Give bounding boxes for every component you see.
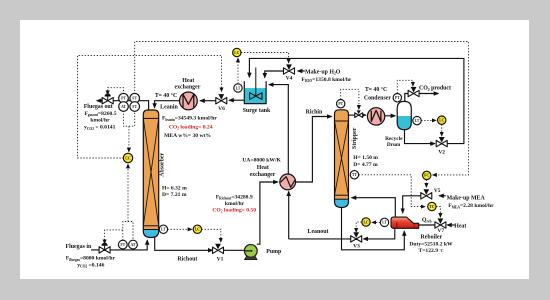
svg-text:Duty=52518.2 kW: Duty=52518.2 kW bbox=[409, 242, 453, 248]
wire V7 to reboiler nozzle bbox=[419, 224, 435, 226]
valve V4 bbox=[284, 64, 295, 74]
controller CC bbox=[123, 153, 132, 162]
svg-text:Stripper: Stripper bbox=[352, 127, 358, 149]
svg-text:V5: V5 bbox=[434, 188, 441, 194]
wire pump discharge to HX2 bbox=[257, 182, 278, 244]
svg-text:LC: LC bbox=[364, 220, 369, 224]
signal stripper PT to overhead valve bbox=[341, 89, 359, 109]
svg-text:Richout: Richout bbox=[177, 257, 197, 263]
svg-text:Condenser: Condenser bbox=[364, 96, 392, 102]
svg-text:H= 6.32 m: H= 6.32 m bbox=[162, 185, 187, 191]
svg-text:CO2 loading= 0.50: CO2 loading= 0.50 bbox=[212, 207, 256, 213]
valve V7 bbox=[435, 218, 446, 228]
controller TC bbox=[428, 202, 436, 210]
signal absorber LT to LC to V1 bbox=[168, 228, 192, 230]
instrument FT fluegas in bbox=[118, 240, 127, 249]
condenser bbox=[367, 108, 384, 125]
svg-text:LC: LC bbox=[439, 118, 444, 122]
instrument LT surge tank bbox=[234, 84, 242, 92]
wire surge tank outlet to V6 bbox=[229, 99, 244, 101]
svg-text:V4: V4 bbox=[286, 76, 293, 82]
recycle drum bbox=[397, 101, 411, 129]
wire CO2 product arrow bbox=[419, 93, 439, 95]
instrument LT absorber bbox=[159, 225, 167, 233]
controller FC bbox=[423, 171, 431, 179]
svg-text:CC: CC bbox=[125, 156, 131, 160]
signal CC to valve V6 bbox=[78, 55, 222, 158]
wire drum bottom to V2 bbox=[405, 129, 435, 143]
svg-text:TC: TC bbox=[429, 205, 434, 209]
instrument FT fluegas out bbox=[130, 93, 140, 103]
svg-text:CO2 product: CO2 product bbox=[419, 86, 451, 92]
wire richout from absorber bottom to V1 bbox=[155, 237, 213, 250]
signal drum LT to LC bbox=[421, 119, 436, 121]
svg-text:FT: FT bbox=[132, 105, 137, 109]
svg-text:V7: V7 bbox=[437, 228, 444, 234]
svg-text:Make-up H2O: Make-up H2O bbox=[305, 70, 341, 76]
svg-text:Fluegas out: Fluegas out bbox=[84, 104, 113, 110]
svg-text:MEA w%= 30 wt%: MEA w%= 30 wt% bbox=[164, 133, 211, 139]
svg-text:TT: TT bbox=[352, 173, 357, 177]
signal surge LT to LC bbox=[237, 58, 239, 84]
signal PT to fluegas-out valve bbox=[108, 88, 124, 95]
svg-text:Fluegas in: Fluegas in bbox=[66, 244, 92, 250]
svg-text:D= 7.21 m: D= 7.21 m bbox=[162, 192, 187, 198]
wire condenser to recycle drum bbox=[385, 115, 396, 117]
valve stripper overhead control bbox=[355, 110, 363, 117]
controller LC surge tank bbox=[233, 48, 241, 56]
signal AT/FT junction to CC bbox=[124, 111, 135, 127]
signal reboiler LT to LC bbox=[372, 221, 380, 223]
svg-text:exchanger: exchanger bbox=[174, 85, 200, 91]
svg-text:D= 4.77 m: D= 4.77 m bbox=[353, 162, 378, 168]
signal surge LC to V4 bbox=[241, 53, 289, 63]
svg-text:LC: LC bbox=[195, 228, 200, 232]
reboiler bbox=[391, 217, 419, 228]
svg-text:LC: LC bbox=[234, 51, 239, 55]
svg-text:V3: V3 bbox=[353, 244, 360, 250]
signal TT to TC bbox=[359, 175, 425, 207]
wire V6 to heat exchanger HX1 bbox=[200, 100, 216, 102]
svg-text:kmol/hr: kmol/hr bbox=[225, 201, 245, 207]
valve V6 bbox=[216, 94, 227, 104]
svg-text:FT: FT bbox=[121, 243, 126, 247]
valve V5 bbox=[421, 189, 432, 199]
svg-text:PT: PT bbox=[395, 96, 400, 100]
svg-text:AT: AT bbox=[131, 243, 136, 247]
svg-text:kmol/hr: kmol/hr bbox=[90, 117, 110, 123]
svg-text:UA=8000 kW/K: UA=8000 kW/K bbox=[242, 158, 281, 164]
svg-text:Leanout: Leanout bbox=[308, 229, 329, 235]
signal fluegas-in FT/AT loop bbox=[123, 222, 133, 241]
instrument PT fluegas out bbox=[119, 93, 129, 103]
surge tank bbox=[244, 68, 266, 104]
wire leanout from reboiler to V3 bbox=[364, 228, 395, 239]
instrument TT stripper bbox=[350, 171, 358, 179]
wire drum top to CO2 product valve bbox=[405, 94, 409, 102]
svg-text:Richin: Richin bbox=[306, 109, 323, 115]
wire leanin into absorber top bbox=[155, 101, 181, 108]
instrument LT reboiler bbox=[380, 218, 388, 226]
valve V2 bbox=[436, 137, 447, 147]
svg-text:LT: LT bbox=[415, 119, 420, 123]
svg-text:Heat: Heat bbox=[182, 78, 194, 84]
svg-text:Make-up MEA: Make-up MEA bbox=[447, 195, 486, 201]
wire HX2 to richin stripper top bbox=[295, 117, 331, 183]
wire stripper overhead to valve bbox=[348, 114, 354, 116]
svg-text:H= 1.50 m: H= 1.50 m bbox=[353, 155, 378, 161]
wire make-up H2O into V4 bbox=[298, 70, 305, 72]
signal FT to FC across top bbox=[135, 42, 469, 175]
wire V3 to leanout riser bbox=[289, 238, 351, 240]
wire V2 recycle to surge tank bbox=[249, 58, 464, 143]
wire reboiler vapor return to stripper bbox=[352, 198, 396, 217]
valve fluegas out bbox=[102, 93, 113, 104]
svg-text:V6: V6 bbox=[218, 106, 225, 112]
svg-text:T= 40 °C: T= 40 °C bbox=[155, 92, 177, 99]
svg-text:Absorber: Absorber bbox=[160, 152, 166, 176]
wire stripper sump to reboiler bbox=[342, 208, 405, 250]
controller LC reboiler bbox=[362, 218, 370, 226]
stripper column bbox=[335, 110, 349, 208]
svg-text:Pump: Pump bbox=[266, 249, 282, 255]
wire V5 to reboiler top bbox=[403, 196, 421, 213]
svg-text:LT: LT bbox=[236, 86, 241, 90]
wire HX2 lean outlet to surge tank bbox=[269, 85, 288, 174]
svg-text:Heat: Heat bbox=[454, 224, 466, 230]
svg-text:Surge tank: Surge tank bbox=[243, 108, 271, 114]
absorber column bbox=[143, 110, 158, 238]
instrument PT drum bbox=[393, 94, 401, 102]
svg-text:exchanger: exchanger bbox=[250, 172, 276, 178]
svg-text:V2: V2 bbox=[438, 150, 445, 156]
svg-text:CO2 loading= 0.24: CO2 loading= 0.24 bbox=[169, 124, 213, 130]
svg-text:T= 40 °C: T= 40 °C bbox=[365, 86, 387, 93]
heat exchanger HX2 (cross exchanger) bbox=[280, 174, 296, 190]
valve fluegas in bbox=[99, 243, 110, 253]
wire leanout riser into HX2 bottom bbox=[288, 192, 290, 239]
pump bbox=[244, 245, 257, 260]
svg-text:V1: V1 bbox=[217, 257, 224, 263]
wire overhead valve to condenser bbox=[362, 114, 365, 116]
heat exchanger HX1 (lean cooler) bbox=[180, 92, 198, 110]
signal TC to V7 bbox=[436, 207, 440, 218]
valve V1 bbox=[213, 244, 224, 254]
instrument AT fluegas in bbox=[129, 240, 138, 249]
svg-text:Drum: Drum bbox=[387, 142, 401, 148]
instrument FT2 fluegas out bbox=[130, 102, 140, 112]
wire make-up MEA into V5 bbox=[439, 195, 446, 197]
svg-text:LT: LT bbox=[161, 228, 166, 232]
instrument PT stripper bbox=[337, 100, 345, 108]
svg-text:Reboiler: Reboiler bbox=[421, 234, 443, 240]
svg-text:FT: FT bbox=[132, 96, 137, 100]
controller LC absorber bbox=[193, 225, 201, 233]
svg-text:FC: FC bbox=[424, 174, 429, 178]
svg-text:PT: PT bbox=[121, 96, 126, 100]
svg-text:LT: LT bbox=[382, 221, 387, 225]
wire fluegas in bbox=[91, 240, 147, 250]
svg-text:Heat: Heat bbox=[257, 165, 269, 171]
signal FC to V5 bbox=[425, 180, 427, 188]
wire V1 to pump bbox=[224, 249, 251, 251]
valve CO2 product bbox=[408, 87, 419, 97]
instrument LT drum bbox=[413, 116, 421, 124]
valve V3 bbox=[351, 232, 362, 242]
wire V4 to surge tank bbox=[265, 71, 284, 78]
signal drum PT to product valve bbox=[397, 80, 413, 93]
signal drum LC to V2 bbox=[441, 124, 443, 136]
controller LC drum bbox=[438, 116, 446, 124]
instrument AT fluegas out bbox=[119, 102, 129, 112]
wire fluegas out from absorber top bbox=[97, 101, 149, 111]
svg-text:Leanin: Leanin bbox=[160, 105, 178, 111]
signal reboiler LC to V3 bbox=[356, 222, 362, 232]
wire heat into V7 bbox=[447, 224, 455, 226]
svg-text:AT: AT bbox=[121, 105, 126, 109]
svg-text:PT: PT bbox=[338, 102, 343, 106]
